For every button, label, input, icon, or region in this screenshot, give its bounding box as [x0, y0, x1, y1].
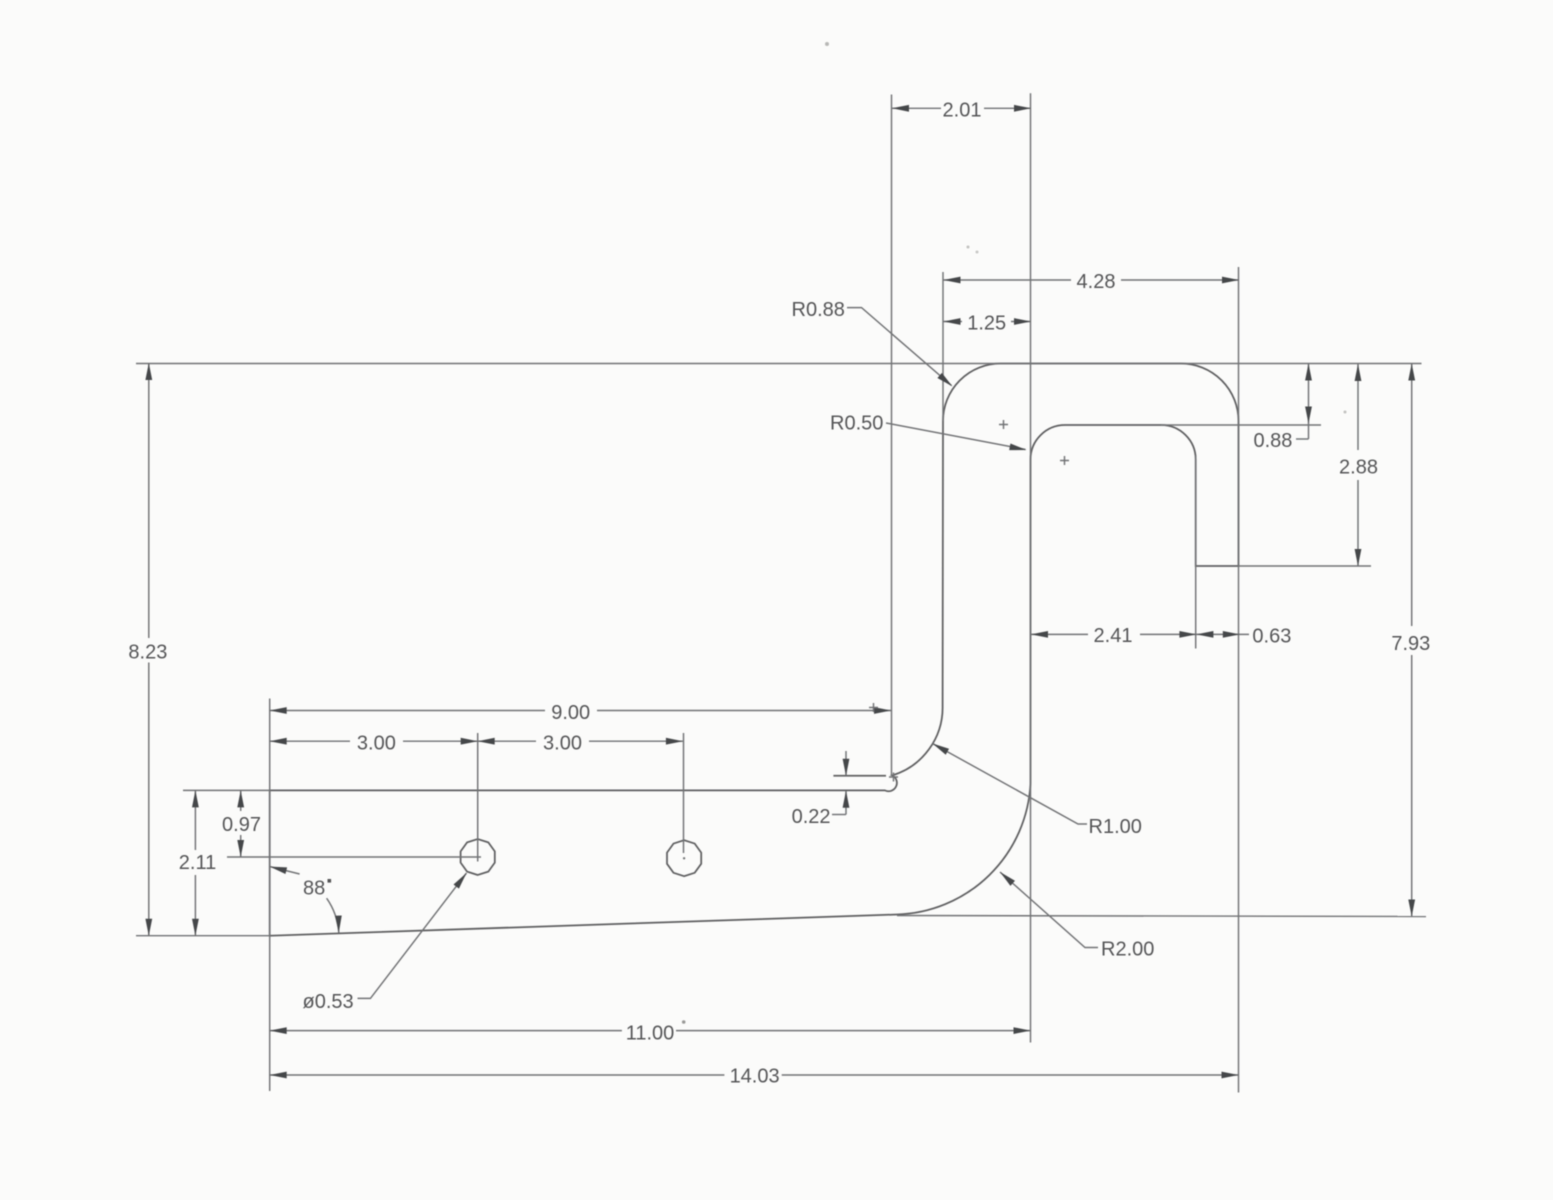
bottom left ext y=935.7: [136, 935, 270, 937]
svg-text:8.23: 8.23: [128, 642, 167, 664]
hole 1: [461, 839, 495, 875]
svg-text:9.00: 9.00: [551, 702, 590, 724]
inner top ext y=425: [1161, 424, 1321, 426]
dim 7.93: [1411, 364, 1413, 627]
dim 11.00: [270, 1030, 622, 1032]
hole1 vert centerline: [477, 733, 479, 862]
dim 2.11: [194, 790, 196, 850]
dim 8.23: [148, 363, 150, 638]
dim 14.03: [270, 1074, 725, 1076]
leader R2.00: [1000, 872, 1098, 948]
dim 3.00 a: [270, 740, 350, 742]
svg-text:R0.88: R0.88: [792, 299, 845, 321]
dim 2.88: [1357, 364, 1359, 450]
top extension line: [136, 363, 1422, 365]
dim 2.01: [892, 107, 941, 109]
svg-text:1.25: 1.25: [967, 312, 1006, 334]
inner bottom ext y=566: [1239, 565, 1372, 567]
svg-text:2.11: 2.11: [179, 852, 216, 874]
ext x=891.5: [891, 95, 893, 776]
dim 0.22: [845, 751, 847, 776]
ext x=1196: [1195, 455, 1197, 649]
svg-text:0.22: 0.22: [792, 806, 831, 828]
svg-text:11.00: 11.00: [626, 1023, 675, 1045]
svg-text:0.88: 0.88: [1254, 430, 1293, 452]
dim 0.63: [1196, 633, 1249, 635]
svg-text:2.41: 2.41: [1094, 625, 1133, 647]
leader R1.00: [933, 744, 1088, 825]
dim 0.97: [240, 790, 242, 811]
dim 3.00 b: [478, 740, 536, 742]
hole center line: [227, 856, 481, 858]
dim 4.28: [944, 279, 1072, 281]
dim 2.41: [1031, 633, 1088, 635]
svg-text:4.28: 4.28: [1077, 271, 1116, 293]
svg-text:3.00: 3.00: [357, 732, 396, 754]
ext x=1238.5: [1238, 267, 1240, 1093]
svg-text:R1.00: R1.00: [1089, 816, 1142, 838]
leader dia 0.53: [358, 873, 467, 998]
part outline: [270, 364, 1239, 936]
center marks: [869, 703, 878, 712]
svg-text:R0.50: R0.50: [830, 413, 883, 435]
svg-text:88: 88: [303, 877, 325, 899]
hole 2: [667, 840, 701, 876]
ext x=1031: [1030, 93, 1032, 1042]
leader R0.50: [886, 423, 1026, 450]
svg-text:14.03: 14.03: [730, 1065, 780, 1087]
svg-text:3.00: 3.00: [543, 732, 582, 754]
slot joggle line: [833, 775, 886, 777]
scan specks: [825, 42, 829, 46]
ext x=943: [942, 272, 944, 421]
svg-text:2.88: 2.88: [1339, 456, 1378, 478]
ext x=269.7: [269, 699, 271, 1092]
dim 9.00: [270, 710, 545, 712]
88 deg angle: [270, 867, 300, 874]
bottom right ext y=916.5: [897, 916, 1426, 917]
svg-text:ø0.53: ø0.53: [303, 991, 354, 1013]
hole2 vert centerline: [683, 733, 685, 853]
svg-text:0.63: 0.63: [1252, 626, 1291, 648]
arm top ext left: [183, 789, 270, 791]
svg-text:R2.00: R2.00: [1101, 938, 1154, 960]
svg-text:7.93: 7.93: [1391, 633, 1430, 655]
leader R0.88: [847, 308, 952, 386]
dim 0.88: [1308, 364, 1310, 440]
svg-text:0.97: 0.97: [222, 814, 261, 836]
svg-text:2.01: 2.01: [943, 100, 982, 122]
dim 1.25: [944, 321, 963, 323]
